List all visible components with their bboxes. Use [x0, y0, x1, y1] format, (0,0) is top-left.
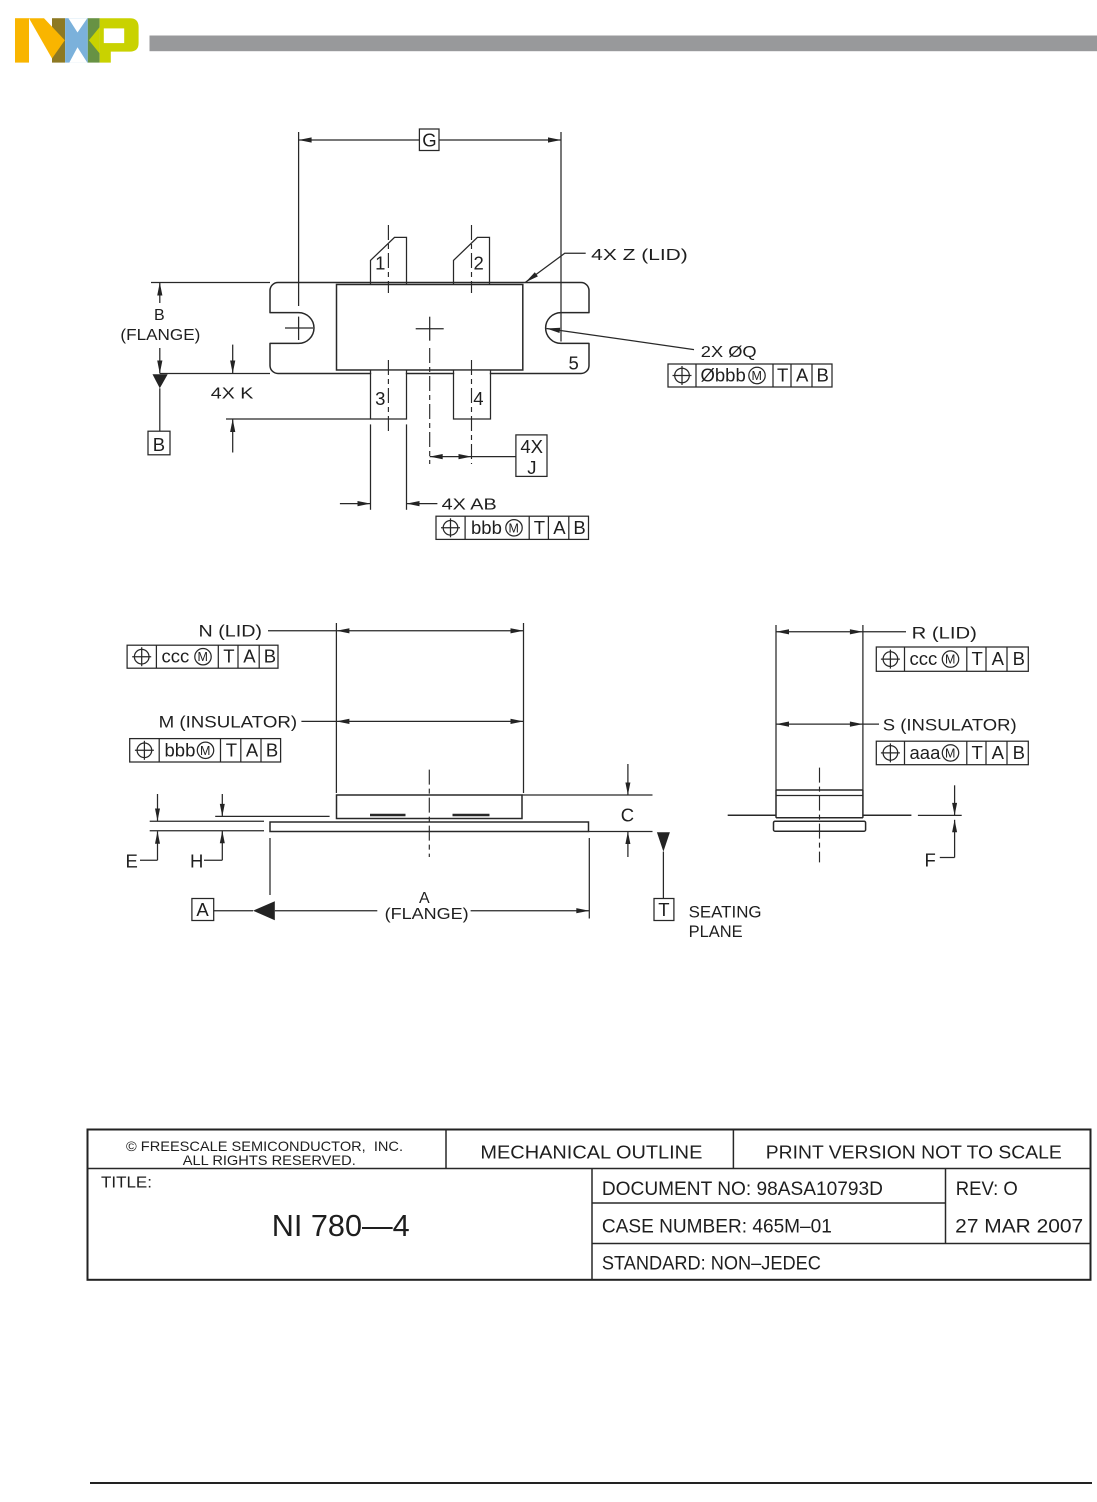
- svg-text:2: 2: [474, 253, 484, 274]
- svg-text:4: 4: [473, 388, 483, 409]
- svg-text:1: 1: [375, 253, 385, 274]
- svg-text:M: M: [752, 369, 762, 383]
- svg-text:M: M: [945, 653, 955, 667]
- svg-text:M: M: [945, 746, 955, 760]
- svg-text:bbb: bbb: [165, 739, 196, 760]
- svg-text:CASE NUMBER: 465M–01: CASE NUMBER: 465M–01: [602, 1217, 832, 1238]
- svg-text:A: A: [196, 899, 209, 920]
- svg-text:C: C: [621, 805, 634, 826]
- svg-text:N (LID): N (LID): [199, 622, 263, 641]
- svg-text:G: G: [422, 130, 436, 151]
- svg-text:A: A: [419, 890, 430, 907]
- svg-text:PRINT VERSION NOT TO SCALE: PRINT VERSION NOT TO SCALE: [766, 1143, 1062, 1163]
- svg-text:H: H: [190, 851, 203, 872]
- svg-text:B: B: [1013, 648, 1025, 669]
- svg-text:MECHANICAL OUTLINE: MECHANICAL OUTLINE: [480, 1143, 702, 1163]
- svg-text:S (INSULATOR): S (INSULATOR): [883, 716, 1017, 735]
- svg-text:F: F: [925, 850, 936, 871]
- svg-text:2X ØQ: 2X ØQ: [701, 344, 757, 361]
- svg-text:T: T: [226, 739, 237, 760]
- svg-text:B: B: [1013, 742, 1025, 763]
- svg-text:4X K: 4X K: [211, 386, 254, 403]
- svg-text:ccc: ccc: [910, 648, 938, 669]
- svg-text:A: A: [796, 365, 809, 386]
- svg-text:T: T: [223, 646, 234, 667]
- svg-text:T: T: [777, 365, 788, 386]
- svg-text:aaa: aaa: [910, 742, 942, 763]
- svg-text:B: B: [817, 365, 829, 386]
- svg-text:T: T: [972, 742, 983, 763]
- svg-text:DOCUMENT NO: 98ASA10793D: DOCUMENT NO: 98ASA10793D: [602, 1179, 883, 1200]
- svg-text:R (LID): R (LID): [912, 623, 977, 642]
- svg-text:SEATING: SEATING: [689, 903, 762, 922]
- svg-text:M: M: [198, 650, 208, 664]
- svg-text:(FLANGE): (FLANGE): [120, 327, 200, 344]
- svg-text:Øbbb: Øbbb: [701, 365, 746, 386]
- svg-text:4X Z (LID): 4X Z (LID): [591, 247, 688, 264]
- svg-text:A: A: [992, 648, 1005, 669]
- svg-text:M: M: [509, 521, 519, 535]
- svg-text:T: T: [534, 517, 545, 538]
- svg-text:27 MAR 2007: 27 MAR 2007: [955, 1217, 1083, 1238]
- svg-text:5: 5: [569, 353, 579, 374]
- svg-text:A: A: [553, 517, 566, 538]
- svg-text:B: B: [264, 646, 276, 667]
- svg-text:bbb: bbb: [471, 517, 502, 538]
- svg-text:J: J: [527, 457, 536, 478]
- svg-text:A: A: [992, 742, 1005, 763]
- svg-text:B: B: [266, 739, 278, 760]
- svg-text:M: M: [200, 744, 210, 758]
- svg-text:3: 3: [375, 388, 385, 409]
- svg-text:B: B: [573, 517, 585, 538]
- svg-text:4X: 4X: [520, 436, 543, 457]
- svg-text:A: A: [243, 646, 256, 667]
- svg-text:B: B: [153, 434, 165, 455]
- svg-text:REV: O: REV: O: [956, 1179, 1018, 1200]
- svg-text:E: E: [126, 851, 138, 872]
- svg-text:STANDARD: NON–JEDEC: STANDARD: NON–JEDEC: [602, 1254, 821, 1275]
- svg-text:TITLE:: TITLE:: [101, 1175, 152, 1192]
- svg-text:T: T: [658, 899, 669, 920]
- svg-text:NI 780—4: NI 780—4: [272, 1208, 410, 1243]
- svg-text:ccc: ccc: [162, 646, 190, 667]
- svg-text:ALL RIGHTS RESERVED.: ALL RIGHTS RESERVED.: [183, 1152, 356, 1168]
- svg-text:(FLANGE): (FLANGE): [385, 906, 469, 923]
- svg-text:T: T: [972, 648, 983, 669]
- svg-text:4X AB: 4X AB: [442, 496, 497, 513]
- svg-text:M (INSULATOR): M (INSULATOR): [159, 712, 298, 731]
- svg-text:PLANE: PLANE: [689, 922, 743, 941]
- svg-text:A: A: [246, 739, 259, 760]
- svg-text:B: B: [154, 307, 165, 324]
